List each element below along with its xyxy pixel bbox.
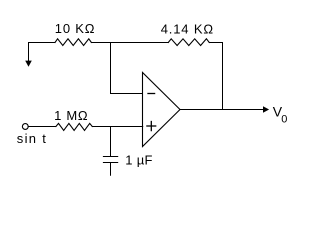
wire: capacitor bottom lead (110, 163, 112, 176)
wire: R2 to output node (feedback right side) (209, 43, 222, 110)
input terminal circle (22, 124, 28, 130)
resistor 1 MΩ (56, 123, 92, 130)
svg-text:4.14 KΩ: 4.14 KΩ (161, 22, 214, 37)
wire: node down to capacitor (110, 127, 112, 157)
resistor 10 KΩ (55, 39, 91, 46)
svg-text:1 µF: 1 µF (125, 153, 152, 168)
svg-text:sin t: sin t (17, 131, 47, 146)
op-amp U1 (143, 73, 181, 147)
wire: feedback node down to inverting input (111, 43, 143, 94)
svg-text:1 MΩ: 1 MΩ (54, 108, 88, 123)
op-amp minus sign (148, 93, 155, 95)
svg-text:10 KΩ: 10 KΩ (55, 21, 95, 36)
op-amp plus sign (147, 122, 156, 131)
wire: top-left corner to R1 (29, 42, 56, 44)
svg-text:0: 0 (281, 114, 287, 126)
capacitor 1 µF (103, 157, 117, 163)
ground arrow (top-left, pointing down) (25, 43, 32, 67)
node V0 output label (273, 104, 288, 126)
resistor 4.14 KΩ (168, 39, 209, 46)
wire: R3 to non-inverting input (92, 126, 142, 128)
wire: R1 to R2 (91, 42, 168, 44)
wire: input terminal to R3 (28, 126, 56, 128)
wire: op-amp output with arrow (180, 106, 269, 112)
